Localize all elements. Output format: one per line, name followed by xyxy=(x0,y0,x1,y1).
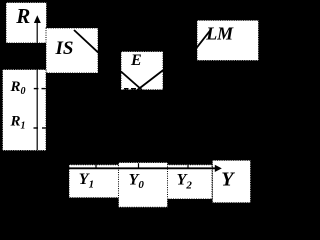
box LM label xyxy=(197,20,259,60)
tick Y0 xyxy=(138,163,140,168)
box R0 R1 levels xyxy=(3,70,47,151)
box R axis label xyxy=(6,3,47,44)
dashed R0 level left xyxy=(34,88,39,90)
Y axis arrowhead xyxy=(215,165,222,172)
IS curve segment in IS box xyxy=(74,30,99,53)
R axis vertical line xyxy=(36,21,38,150)
box IS label xyxy=(46,28,98,73)
svg-text:LM: LM xyxy=(205,23,234,43)
tick Y1 xyxy=(95,165,97,168)
Y axis horizontal line xyxy=(68,167,216,169)
dashed R1 level xyxy=(34,127,39,129)
dashed R0 level at E xyxy=(124,88,129,90)
svg-text:IS: IS xyxy=(55,38,74,59)
IS curve segment in E box xyxy=(121,72,142,91)
R axis arrowhead xyxy=(34,15,41,23)
LM curve segment at LM box xyxy=(196,30,211,49)
box Y0 label xyxy=(119,163,168,208)
tick Y2 xyxy=(187,165,189,168)
box Y axis label xyxy=(212,160,250,202)
box Y2 label xyxy=(167,165,212,199)
svg-text:Y: Y xyxy=(221,169,235,191)
LM curve segment at E xyxy=(137,70,163,90)
box E label xyxy=(121,52,163,90)
box Y1 label xyxy=(69,165,119,198)
svg-text:R: R xyxy=(15,4,30,28)
svg-text:E: E xyxy=(130,52,142,69)
